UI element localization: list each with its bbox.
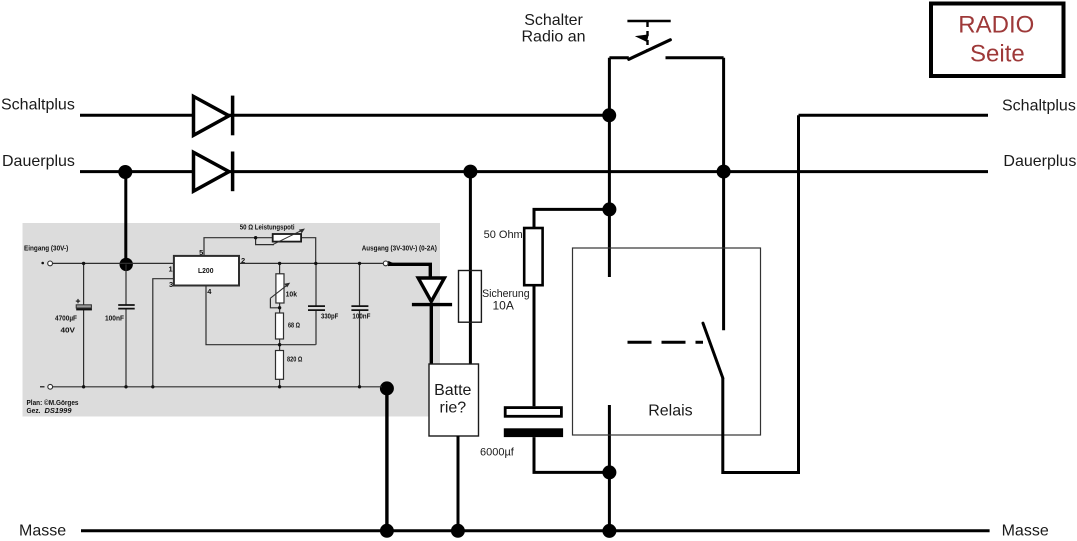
diode D2 on Dauerplus xyxy=(194,152,233,192)
wire 330pF top xyxy=(315,263,317,306)
switch S1 actuator arrow xyxy=(635,34,649,42)
wire 50 Ohm branch top xyxy=(534,209,609,228)
svg-text:100nF: 100nF xyxy=(105,314,124,323)
terminal input plus xyxy=(41,262,44,265)
svg-text:Schalter: Schalter xyxy=(524,12,583,29)
svg-text:Dauerplus: Dauerplus xyxy=(2,153,75,170)
wire Dauerplus rail xyxy=(80,170,988,173)
regulator sub-schematic background panel xyxy=(23,223,441,417)
capacitor C1 4700uF top plate xyxy=(76,305,91,308)
wire L200 pin5 xyxy=(204,238,273,256)
RADIO Seite title box xyxy=(931,4,1064,77)
wire 68 ohm bottom xyxy=(279,339,281,351)
fuse F1 body xyxy=(459,271,482,323)
node junction dot regulator ground / Masse xyxy=(380,524,394,538)
resistor R1 50 Ohm body xyxy=(524,228,542,285)
node small junction dots regulator xyxy=(82,236,361,388)
svg-text:RADIO: RADIO xyxy=(958,11,1034,38)
terminal input minus xyxy=(40,386,45,388)
svg-text:Batte: Batte xyxy=(434,382,471,399)
svg-text:50 Ohm: 50 Ohm xyxy=(484,229,523,241)
wire relay contact to Schaltplus right xyxy=(723,115,799,472)
wire poti right to pin2 line xyxy=(301,238,316,264)
wire 4700uF top xyxy=(83,263,85,304)
switch S1 actuator bar xyxy=(627,20,670,23)
node junction dot coil wire / Masse xyxy=(602,524,616,538)
relay K1 contact arm xyxy=(703,323,723,378)
node junction dot fuse/Dauerplus xyxy=(463,165,477,179)
svg-text:820 Ω: 820 Ω xyxy=(287,355,302,364)
wire 100nF2 bottom xyxy=(359,310,361,387)
svg-text:50 Ω Leistungspoti: 50 Ω Leistungspoti xyxy=(240,223,295,232)
node junction dot regulator input xyxy=(120,258,133,271)
potentiometer P1 50 ohm body xyxy=(273,234,301,242)
svg-text:Masse: Masse xyxy=(19,522,66,539)
wire L200 pin3 xyxy=(153,279,174,387)
svg-text:100nF: 100nF xyxy=(352,311,370,320)
svg-text:Radio an: Radio an xyxy=(522,29,586,46)
potentiometer P2 arrow xyxy=(270,285,287,298)
svg-text:68 Ω: 68 Ω xyxy=(288,321,300,330)
wire regulator output to battery diode xyxy=(388,264,430,279)
wire 820 ohm bottom xyxy=(279,379,281,387)
svg-text:DS1999: DS1999 xyxy=(45,406,73,415)
wire L200 pin4 xyxy=(206,286,316,345)
svg-text:4700µF: 4700µF xyxy=(55,314,77,323)
wire 6000uf to coil wire xyxy=(534,437,609,472)
wire 100nF top xyxy=(125,264,127,305)
svg-text:Relais: Relais xyxy=(648,402,692,419)
wire 10k bottom xyxy=(279,303,281,313)
svg-text:10A: 10A xyxy=(493,298,514,312)
svg-text:Schaltplus: Schaltplus xyxy=(1,96,75,113)
svg-text:Schaltplus: Schaltplus xyxy=(1002,97,1076,114)
node junction dot Dauerplus/regulator xyxy=(118,165,132,179)
capacitor C4 100nF plates xyxy=(351,306,368,310)
svg-text:1: 1 xyxy=(169,264,173,273)
svg-text:rie?: rie? xyxy=(440,399,467,416)
potentiometer P2 10k body xyxy=(276,274,284,303)
wire Schaltplus left rail xyxy=(80,114,609,117)
relay K1 box xyxy=(573,248,761,435)
wire 10k top xyxy=(279,263,281,273)
switch S1 right contact wire xyxy=(666,56,724,59)
wire Dauerplus feed down to regulator input xyxy=(124,172,127,265)
wire switch right vertical down to relay contact xyxy=(722,58,725,331)
svg-text:Seite: Seite xyxy=(970,40,1025,67)
svg-text:Gez.: Gez. xyxy=(27,406,41,415)
diode D1 on Schaltplus xyxy=(194,96,233,136)
wire regulator bottom rail xyxy=(53,386,382,388)
svg-text:L200: L200 xyxy=(198,266,214,275)
svg-text:Ausgang (3V-30V-) (0-2A): Ausgang (3V-30V-) (0-2A) xyxy=(362,243,438,252)
L200 regulator U1 body xyxy=(174,256,239,286)
wire Masse rail xyxy=(81,529,990,532)
diode D3 battery branch xyxy=(412,278,452,305)
svg-text:330pF: 330pF xyxy=(321,311,339,320)
wire 10k wiper tie xyxy=(270,298,279,308)
resistor R2 68 ohm body xyxy=(276,313,284,339)
svg-text:5: 5 xyxy=(199,248,203,257)
switch S1 actuator dashed link xyxy=(646,22,648,50)
wire 50 Ohm to capacitor xyxy=(533,285,536,406)
wire Schaltplus right rail xyxy=(799,114,989,117)
wire regulator ground drop to Masse xyxy=(385,388,388,531)
capacitor C5 6000uf top plate xyxy=(505,408,561,417)
capacitor C2 100nF plates xyxy=(118,305,135,309)
wire switch left vertical (Schaltplus to relay coil) xyxy=(608,58,611,277)
node junction dot switch/Dauerplus xyxy=(717,165,731,179)
wire poti wiper tie xyxy=(256,238,274,245)
resistor R3 820 ohm body xyxy=(276,351,284,380)
wire Eingang to L200 pin1 xyxy=(53,262,174,264)
capacitor C5 6000uf bottom plate xyxy=(504,428,563,437)
svg-text:3: 3 xyxy=(169,280,173,289)
svg-text:Masse: Masse xyxy=(1002,522,1049,539)
svg-text:10k: 10k xyxy=(286,289,298,298)
wire 100nF bottom xyxy=(125,309,127,387)
wire 100nF2 top xyxy=(359,263,361,306)
wire 4700uF bottom xyxy=(83,310,85,387)
svg-text:Eingang (30V-): Eingang (30V-) xyxy=(24,244,69,253)
wire relay coil lower stub to Masse xyxy=(608,405,611,531)
svg-text:6000µf: 6000µf xyxy=(480,447,515,459)
node junction dot battery/Masse xyxy=(451,524,465,538)
node junction dot 6000uf/coil wire xyxy=(602,465,616,479)
capacitor C1 4700uF bottom plate xyxy=(76,309,92,311)
switch S1 left contact wire xyxy=(609,56,628,59)
switch S1 arm xyxy=(629,40,671,60)
battery B1 box xyxy=(429,364,479,436)
wire L200 pin2 output line xyxy=(239,262,383,264)
terminal output xyxy=(383,261,388,266)
svg-text:2: 2 xyxy=(241,256,245,265)
svg-text:40V: 40V xyxy=(61,326,76,335)
wire battery to Masse xyxy=(457,436,460,531)
node junction dot 50ohm/coil wire xyxy=(602,202,616,216)
capacitor C1 4700uF plus mark xyxy=(76,299,80,303)
wire 330pF bottom xyxy=(315,310,317,345)
capacitor C3 330pF plates xyxy=(308,306,325,310)
node junction dot switch/Schaltplus xyxy=(602,108,616,122)
potentiometer P1 arrow xyxy=(272,230,302,245)
wire fuse branch Dauerplus to battery xyxy=(469,172,472,364)
node output arrow mark xyxy=(388,261,394,266)
relay K1 actuation dashed line xyxy=(628,341,704,344)
wire diode to battery box xyxy=(430,305,433,364)
node junction dot regulator ground xyxy=(380,381,394,395)
svg-text:Dauerplus: Dauerplus xyxy=(1003,153,1076,170)
